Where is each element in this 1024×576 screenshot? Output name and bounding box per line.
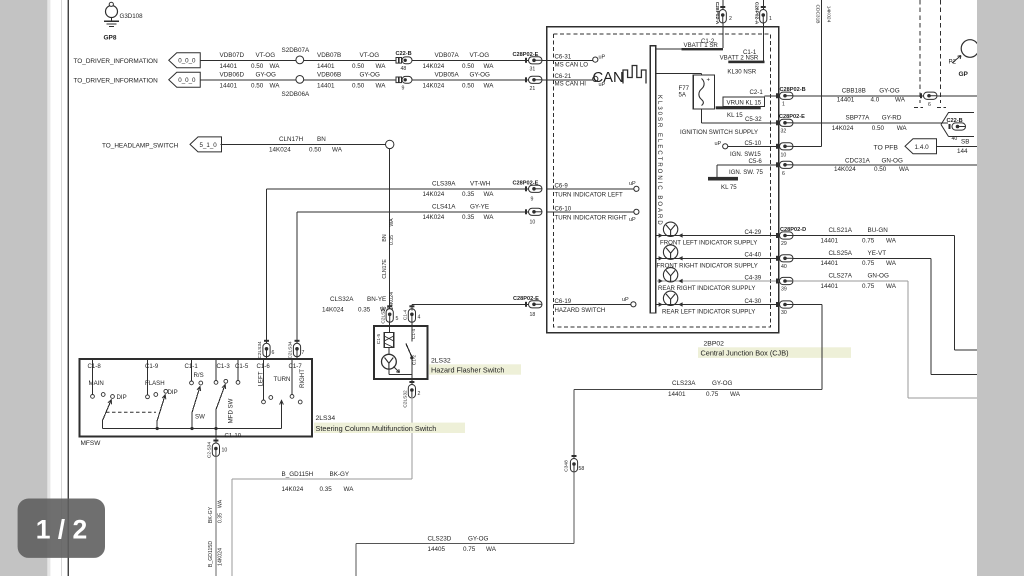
- svg-text:2LS32: 2LS32: [431, 357, 451, 364]
- svg-text:C348: C348: [564, 460, 570, 472]
- svg-text:C2-S34: C2-S34: [206, 442, 212, 459]
- svg-text:CLS27A: CLS27A: [829, 273, 853, 280]
- svg-text:uP: uP: [599, 54, 606, 60]
- svg-text:CLS39A: CLS39A: [432, 181, 456, 188]
- svg-text:29: 29: [781, 241, 787, 247]
- svg-text:14K024: 14K024: [282, 486, 304, 493]
- svg-text:5_1_0: 5_1_0: [200, 142, 218, 149]
- svg-text:1: 1: [782, 101, 785, 107]
- svg-text:KL 15: KL 15: [727, 112, 743, 119]
- svg-text:BU-GN: BU-GN: [868, 227, 889, 234]
- svg-text:0.50: 0.50: [874, 166, 887, 173]
- svg-text:C1-4: C1-4: [402, 309, 408, 320]
- svg-text:WA: WA: [218, 499, 224, 508]
- svg-text:WA: WA: [886, 260, 897, 267]
- svg-text:C1-6: C1-6: [257, 363, 271, 370]
- svg-text:TO PFB: TO PFB: [874, 145, 899, 152]
- svg-text:40: 40: [952, 136, 958, 142]
- svg-text:39: 39: [781, 287, 787, 293]
- svg-text:C4-39: C4-39: [745, 274, 762, 281]
- svg-text:C1-9: C1-9: [145, 363, 159, 370]
- svg-text:YE-VT: YE-VT: [868, 250, 887, 257]
- svg-text:14K024: 14K024: [322, 306, 344, 313]
- svg-text:CLS32A: CLS32A: [330, 296, 354, 303]
- svg-text:CBB18B: CBB18B: [842, 87, 866, 94]
- svg-text:2BP02: 2BP02: [704, 340, 725, 347]
- svg-text:14401: 14401: [837, 97, 855, 104]
- svg-text:uP: uP: [629, 181, 636, 187]
- svg-text:40: 40: [781, 264, 787, 270]
- svg-text:WA: WA: [897, 125, 908, 132]
- svg-text:MFD SW: MFD SW: [228, 398, 235, 423]
- svg-text:TURN INDICATOR LEFT: TURN INDICATOR LEFT: [555, 191, 623, 198]
- svg-text:VDB07B: VDB07B: [317, 52, 341, 59]
- svg-text:14K024: 14K024: [269, 147, 291, 154]
- svg-text:WA: WA: [376, 82, 387, 89]
- svg-text:0.50: 0.50: [872, 125, 885, 132]
- svg-text:0.35: 0.35: [218, 513, 224, 523]
- svg-text:FRONT LEFT INDICATOR SUPPLY: FRONT LEFT INDICATOR SUPPLY: [660, 240, 757, 247]
- svg-text:BK-GY: BK-GY: [208, 506, 214, 523]
- svg-text:14K024: 14K024: [832, 125, 854, 132]
- svg-text:CAN: CAN: [593, 70, 624, 86]
- svg-text:WA: WA: [484, 191, 495, 198]
- svg-text:C1-2: C1-2: [412, 354, 418, 365]
- svg-text:C5-6: C5-6: [749, 158, 763, 165]
- svg-text:0.75: 0.75: [706, 391, 719, 398]
- svg-text:LEFT: LEFT: [258, 371, 265, 386]
- svg-text:VT-WH: VT-WH: [470, 181, 491, 188]
- svg-text:C5-32: C5-32: [745, 116, 762, 123]
- svg-text:GN-OG: GN-OG: [882, 157, 903, 164]
- svg-text:7: 7: [302, 350, 305, 356]
- svg-text:IGN. SW15: IGN. SW15: [730, 151, 761, 158]
- svg-text:0_0_0: 0_0_0: [178, 58, 196, 65]
- svg-text:0.75: 0.75: [463, 546, 476, 553]
- svg-text:10: 10: [781, 152, 787, 158]
- svg-text:VDB05A: VDB05A: [435, 72, 460, 79]
- svg-text:14K024: 14K024: [423, 191, 445, 198]
- svg-text:32: 32: [781, 128, 787, 134]
- svg-text:FLASH: FLASH: [145, 380, 165, 387]
- svg-text:31: 31: [530, 67, 536, 73]
- svg-text:Hazard Flasher Switch: Hazard Flasher Switch: [431, 365, 504, 374]
- svg-text:IGNITION SWITCH SUPPLY: IGNITION SWITCH SUPPLY: [680, 129, 758, 136]
- svg-text:CLS23D: CLS23D: [428, 536, 452, 543]
- svg-text:C28P02-A: C28P02-A: [753, 2, 759, 25]
- svg-text:MS CAN HI: MS CAN HI: [555, 81, 587, 88]
- svg-text:R/S: R/S: [194, 372, 204, 379]
- svg-text:VDB07A: VDB07A: [435, 52, 460, 59]
- svg-text:B_GD115H: B_GD115H: [282, 471, 314, 478]
- svg-text:S2DB07A: S2DB07A: [282, 47, 310, 54]
- svg-text:G3D108: G3D108: [120, 13, 144, 20]
- svg-text:C28P02-D: C28P02-D: [780, 227, 806, 233]
- svg-text:C6-21: C6-21: [555, 73, 572, 80]
- svg-text:C2LS32: C2LS32: [403, 390, 409, 408]
- svg-text:Central Junction Box (CJB): Central Junction Box (CJB): [701, 349, 789, 358]
- svg-text:GY-OG: GY-OG: [879, 87, 900, 94]
- svg-text:VT-OG: VT-OG: [360, 52, 380, 59]
- svg-text:SW: SW: [195, 413, 205, 420]
- svg-text:0.75: 0.75: [862, 260, 875, 267]
- svg-text:0.50: 0.50: [352, 63, 365, 70]
- svg-text:2: 2: [729, 16, 732, 22]
- svg-text:10: 10: [530, 220, 536, 226]
- svg-text:CLS23A: CLS23A: [672, 380, 696, 387]
- svg-text:WA: WA: [484, 63, 495, 70]
- svg-text:CLS25A: CLS25A: [829, 250, 853, 257]
- svg-text:S2DB06A: S2DB06A: [282, 91, 310, 98]
- svg-text:WA: WA: [886, 237, 897, 244]
- svg-text:0.50: 0.50: [251, 63, 264, 70]
- svg-text:P2: P2: [949, 59, 957, 66]
- svg-text:C6-31: C6-31: [555, 54, 572, 61]
- svg-text:VRUN KL 15: VRUN KL 15: [727, 99, 762, 106]
- svg-text:C2LS32: C2LS32: [380, 306, 386, 324]
- svg-text:CDC31B: CDC31B: [815, 5, 821, 24]
- svg-text:uP: uP: [629, 217, 636, 223]
- svg-text:CLS21A: CLS21A: [829, 227, 853, 234]
- svg-text:6: 6: [928, 102, 931, 108]
- svg-text:C1-5: C1-5: [235, 363, 249, 370]
- svg-text:14K024: 14K024: [423, 82, 445, 89]
- svg-text:FRONT RIGHT INDICATOR SUPPLY: FRONT RIGHT INDICATOR SUPPLY: [657, 262, 758, 269]
- svg-text:WA: WA: [270, 82, 281, 89]
- svg-text:WA: WA: [376, 63, 387, 70]
- svg-text:C1-8: C1-8: [88, 363, 102, 370]
- svg-text:C1-3: C1-3: [217, 363, 231, 370]
- svg-text:TO_HEADLAMP_SWITCH: TO_HEADLAMP_SWITCH: [102, 142, 179, 149]
- svg-text:18: 18: [530, 312, 536, 318]
- svg-text:TO_DRIVER_INFORMATION: TO_DRIVER_INFORMATION: [74, 77, 159, 84]
- svg-text:2: 2: [418, 391, 421, 397]
- svg-text:WA: WA: [486, 546, 497, 553]
- svg-text:BN: BN: [382, 234, 388, 241]
- svg-text:GY-RD: GY-RD: [882, 114, 902, 121]
- svg-text:4.0: 4.0: [871, 97, 880, 104]
- svg-text:14401: 14401: [220, 82, 238, 89]
- svg-text:DIP: DIP: [168, 389, 178, 396]
- svg-text:C4-29: C4-29: [745, 229, 762, 236]
- svg-text:TURN: TURN: [274, 376, 291, 383]
- svg-text:MS CAN LO: MS CAN LO: [555, 61, 589, 68]
- svg-text:BN: BN: [317, 136, 326, 143]
- svg-text:MAIN: MAIN: [89, 380, 104, 387]
- svg-text:VDB07D: VDB07D: [220, 52, 245, 59]
- svg-text:IGN. SW. 75: IGN. SW. 75: [729, 169, 763, 176]
- svg-text:14K024: 14K024: [423, 214, 445, 221]
- svg-text:VDB06D: VDB06D: [220, 72, 245, 79]
- svg-text:TO_DRIVER_INFORMATION: TO_DRIVER_INFORMATION: [74, 58, 159, 65]
- svg-text:C4-30: C4-30: [745, 298, 762, 305]
- svg-text:5A: 5A: [679, 92, 687, 99]
- svg-text:14401: 14401: [668, 391, 686, 398]
- svg-text:0.50: 0.50: [309, 147, 322, 154]
- svg-text:KL30SR ELECTRONIC BOARD: KL30SR ELECTRONIC BOARD: [656, 95, 662, 227]
- svg-text:4: 4: [418, 315, 421, 321]
- svg-text:14401: 14401: [821, 260, 839, 267]
- svg-text:VT-OG: VT-OG: [470, 52, 490, 59]
- svg-text:C6-9: C6-9: [555, 183, 569, 190]
- svg-text:0.35: 0.35: [389, 235, 395, 245]
- svg-text:C28P02-B: C28P02-B: [780, 87, 806, 93]
- svg-text:0.35: 0.35: [320, 486, 333, 493]
- svg-text:WA: WA: [730, 391, 741, 398]
- svg-text:6: 6: [782, 171, 785, 177]
- svg-text:14401: 14401: [317, 82, 335, 89]
- svg-text:CLS41A: CLS41A: [432, 204, 456, 211]
- svg-text:14401: 14401: [821, 283, 839, 290]
- svg-text:WA: WA: [389, 218, 395, 227]
- svg-text:WA: WA: [270, 63, 281, 70]
- svg-text:9: 9: [402, 86, 405, 92]
- svg-text:Steering Column Multifunction: Steering Column Multifunction Switch: [316, 424, 437, 433]
- svg-text:0.35: 0.35: [358, 306, 371, 313]
- svg-text:WA: WA: [344, 486, 355, 493]
- svg-text:CLN17E: CLN17E: [382, 259, 388, 279]
- svg-text:GY-OG: GY-OG: [468, 536, 489, 543]
- svg-text:RIGHT: RIGHT: [299, 369, 306, 388]
- svg-text:C1-5: C1-5: [376, 333, 382, 344]
- svg-text:C2-1: C2-1: [750, 89, 764, 96]
- svg-text:0.50: 0.50: [352, 82, 365, 89]
- svg-text:0.35: 0.35: [462, 214, 475, 221]
- svg-text:C1-10: C1-10: [225, 432, 242, 439]
- svg-text:1.4.0: 1.4.0: [915, 144, 930, 151]
- svg-text:C1-1: C1-1: [185, 363, 199, 370]
- svg-text:BN-YE: BN-YE: [367, 296, 386, 303]
- svg-text:CLN17H: CLN17H: [279, 136, 304, 143]
- svg-text:0.50: 0.50: [462, 63, 475, 70]
- svg-text:14K024: 14K024: [834, 166, 856, 173]
- svg-text:TURN INDICATOR RIGHT: TURN INDICATOR RIGHT: [555, 214, 627, 221]
- svg-text:GY-OG: GY-OG: [470, 72, 491, 79]
- svg-text:GY-OG: GY-OG: [360, 72, 381, 79]
- svg-text:BK-GY: BK-GY: [330, 471, 350, 478]
- svg-text:VT-OG: VT-OG: [256, 52, 276, 59]
- svg-text:144: 144: [957, 148, 968, 155]
- svg-text:WA: WA: [332, 147, 343, 154]
- svg-text:C6-10: C6-10: [555, 206, 572, 213]
- svg-text:14401: 14401: [821, 237, 839, 244]
- svg-text:0_0_0: 0_0_0: [178, 77, 196, 84]
- svg-text:GP: GP: [959, 71, 969, 78]
- svg-text:KL30 NSR: KL30 NSR: [727, 69, 756, 76]
- svg-text:+: +: [707, 78, 711, 84]
- svg-text:C28P02-A: C28P02-A: [714, 2, 720, 25]
- svg-text:14401: 14401: [220, 63, 238, 70]
- svg-text:DIP: DIP: [117, 394, 127, 401]
- svg-text:14K024: 14K024: [218, 548, 224, 566]
- svg-text:uP: uP: [622, 297, 629, 303]
- svg-text:6: 6: [272, 350, 275, 356]
- svg-text:14K024: 14K024: [826, 6, 832, 23]
- svg-text:C28P02-E: C28P02-E: [779, 114, 805, 120]
- svg-text:14401: 14401: [317, 63, 335, 70]
- svg-text:0.50: 0.50: [251, 82, 264, 89]
- svg-text:GN-OG: GN-OG: [868, 273, 889, 280]
- svg-text:GP8: GP8: [104, 35, 117, 42]
- svg-text:0.35: 0.35: [462, 191, 475, 198]
- svg-text:CDC31A: CDC31A: [845, 157, 871, 164]
- svg-text:14405: 14405: [428, 546, 446, 553]
- svg-text:WA: WA: [899, 166, 910, 173]
- svg-text:REAR LEFT INDICATOR SUPPLY: REAR LEFT INDICATOR SUPPLY: [662, 309, 755, 316]
- svg-text:0.75: 0.75: [862, 283, 875, 290]
- svg-text:C6-19: C6-19: [555, 298, 572, 305]
- svg-text:SBP77A: SBP77A: [846, 114, 871, 121]
- svg-text:C2LS34: C2LS34: [288, 341, 294, 359]
- svg-text:C2LS34: C2LS34: [257, 341, 263, 359]
- svg-text:10: 10: [222, 448, 228, 454]
- svg-text:C5-10: C5-10: [745, 140, 762, 147]
- svg-text:MFSW: MFSW: [81, 440, 102, 447]
- svg-text:WA: WA: [895, 97, 906, 104]
- svg-text:WA: WA: [484, 82, 495, 89]
- svg-text:GY-YE: GY-YE: [470, 204, 489, 211]
- svg-text:1 / 2: 1 / 2: [36, 515, 88, 545]
- svg-text:14K024: 14K024: [423, 63, 445, 70]
- svg-text:C1-7: C1-7: [289, 363, 303, 370]
- svg-text:HAZARD SWITCH: HAZARD SWITCH: [555, 307, 606, 314]
- svg-text:58: 58: [579, 466, 585, 472]
- svg-text:48: 48: [401, 66, 407, 72]
- svg-text:5: 5: [396, 316, 399, 322]
- svg-text:C28P02-E: C28P02-E: [513, 52, 539, 58]
- svg-text:WA: WA: [484, 214, 495, 221]
- svg-text:2LS34: 2LS34: [316, 415, 336, 422]
- svg-text:SB: SB: [961, 139, 969, 146]
- svg-text:KL 75: KL 75: [721, 184, 737, 191]
- svg-text:C4-40: C4-40: [745, 252, 762, 259]
- svg-text:C22-B: C22-B: [396, 51, 412, 57]
- svg-text:WA: WA: [886, 283, 897, 290]
- svg-text:GY-OG: GY-OG: [256, 72, 277, 79]
- svg-text:B_GD115D: B_GD115D: [208, 541, 214, 567]
- svg-text:VDB06B: VDB06B: [317, 72, 341, 79]
- svg-text:0.50: 0.50: [462, 82, 475, 89]
- svg-text:30: 30: [781, 310, 787, 316]
- svg-text:uP: uP: [715, 141, 722, 147]
- svg-text:GY-OG: GY-OG: [712, 380, 733, 387]
- svg-text:VBATT 2 NSR: VBATT 2 NSR: [720, 55, 759, 62]
- svg-text:1: 1: [769, 16, 772, 22]
- svg-text:21: 21: [530, 86, 536, 92]
- svg-text:0.75: 0.75: [862, 237, 875, 244]
- svg-text:9: 9: [531, 197, 534, 203]
